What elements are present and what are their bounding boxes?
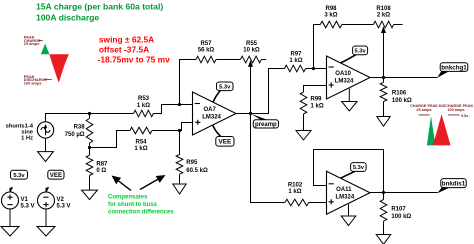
svg-text:25 amps: 25 amps <box>24 41 40 46</box>
svg-text:V2: V2 <box>57 197 65 203</box>
svg-text:3 kΩ: 3 kΩ <box>324 13 337 19</box>
svg-text:VEE: VEE <box>50 172 62 179</box>
svg-text:6.5x: 6.5x <box>461 114 469 118</box>
svg-text:Compensates: Compensates <box>108 194 148 200</box>
svg-text:R99: R99 <box>311 97 323 103</box>
svg-text:shunts1-4: shunts1-4 <box>6 123 34 129</box>
svg-text:R106: R106 <box>392 91 407 97</box>
svg-text:LM324: LM324 <box>335 78 354 84</box>
svg-text:750 µΩ: 750 µΩ <box>65 132 85 138</box>
svg-text:swing ± 62.5A: swing ± 62.5A <box>99 34 154 44</box>
svg-text:1 kΩ: 1 kΩ <box>134 146 147 152</box>
svg-text:100 amps: 100 amps <box>447 108 464 112</box>
svg-text:R107: R107 <box>391 206 406 212</box>
svg-text:bnkchg1: bnkchg1 <box>441 64 467 71</box>
svg-text:R53: R53 <box>138 96 150 102</box>
svg-text:56 kΩ: 56 kΩ <box>198 48 215 54</box>
svg-text:5.3v: 5.3v <box>353 165 365 171</box>
svg-text:bnkdis1: bnkdis1 <box>442 180 466 187</box>
svg-text:R38: R38 <box>74 124 86 130</box>
svg-text:VEE: VEE <box>219 139 233 146</box>
svg-text:OA7: OA7 <box>204 107 217 113</box>
svg-text:1 kΩ: 1 kΩ <box>288 189 301 195</box>
svg-text:5.3 V: 5.3 V <box>21 204 35 210</box>
svg-text:OA10: OA10 <box>335 71 351 77</box>
svg-text:R55: R55 <box>246 41 258 47</box>
svg-text:V1: V1 <box>21 197 29 203</box>
svg-text:preamp: preamp <box>255 122 277 128</box>
svg-text:R95: R95 <box>186 160 198 166</box>
svg-text:1 kΩ: 1 kΩ <box>311 103 324 109</box>
svg-text:sine: sine <box>21 129 33 135</box>
svg-text:1 kΩ: 1 kΩ <box>137 103 150 109</box>
svg-text:100 kΩ: 100 kΩ <box>391 214 411 220</box>
svg-text:R54: R54 <box>135 140 147 146</box>
svg-text:R57: R57 <box>200 41 212 47</box>
svg-text:25 amps: 25 amps <box>416 108 431 112</box>
svg-text:100A discharge: 100A discharge <box>36 13 99 23</box>
svg-text:10 kΩ: 10 kΩ <box>243 48 260 54</box>
svg-text:R102: R102 <box>288 183 303 189</box>
svg-text:-18.75mv to 75 mv: -18.75mv to 75 mv <box>98 55 170 65</box>
svg-text:LM324: LM324 <box>202 114 221 120</box>
svg-text:R87: R87 <box>96 162 108 168</box>
svg-text:5.3v: 5.3v <box>219 84 231 90</box>
svg-text:for shunt to buss: for shunt to buss <box>108 202 158 208</box>
svg-text:offset -37.5A: offset -37.5A <box>99 45 149 55</box>
svg-text:connection differences: connection differences <box>108 209 174 215</box>
svg-text:5.3v: 5.3v <box>13 173 25 179</box>
svg-text:R97: R97 <box>290 52 302 58</box>
svg-text:100 amps: 100 amps <box>24 80 42 85</box>
svg-text:OA11: OA11 <box>336 187 352 193</box>
svg-text:5.3v: 5.3v <box>354 48 366 54</box>
svg-text:60.5 kΩ: 60.5 kΩ <box>186 168 208 174</box>
svg-text:R108: R108 <box>376 6 391 12</box>
svg-text:100 kΩ: 100 kΩ <box>392 98 412 104</box>
svg-text:0 Ω: 0 Ω <box>96 168 106 174</box>
svg-text:2 kΩ: 2 kΩ <box>377 13 390 19</box>
svg-text:5.3 V: 5.3 V <box>57 204 71 210</box>
svg-text:1 Hz: 1 Hz <box>21 136 33 142</box>
svg-text:LM324: LM324 <box>336 194 355 200</box>
svg-text:1 kΩ: 1 kΩ <box>289 58 302 64</box>
svg-text:R98: R98 <box>325 6 337 12</box>
svg-text:15A charge (per bank 60a total: 15A charge (per bank 60a total) <box>36 1 163 11</box>
